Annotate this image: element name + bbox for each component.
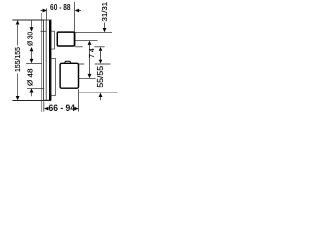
dim 55/55 bottom arrow	[99, 93, 103, 97]
dim 60-88 left arrow	[41, 10, 43, 12]
dim 74 line	[89, 45, 91, 75]
svg-text:155/155: 155/155	[15, 47, 22, 72]
upper collar	[51, 31, 54, 49]
upper knob front face	[74, 32, 76, 46]
svg-text:7: 7	[89, 54, 96, 58]
ext L6 lower axis	[78, 77, 95, 79]
dim 60-88 right arrow	[75, 9, 79, 13]
dim 66-94 ext left	[43, 101, 45, 111]
lower knob tab	[65, 61, 70, 63]
svg-text:Ø 30: Ø 30	[25, 32, 34, 46]
plate bottom ext	[12, 100, 51, 102]
lower knob top ext left	[26, 63, 42, 65]
dim O48 bottom arrow	[30, 88, 34, 92]
ext L1 upper knob top	[75, 32, 112, 34]
dim 66-94 right arrow	[74, 107, 78, 111]
ext L5a	[79, 92, 118, 94]
plate top ext	[12, 19, 43, 21]
dim O48 top arrow	[30, 59, 34, 63]
dim 74 top arrow	[88, 41, 92, 45]
dim 60-88 ext right	[74, 2, 76, 32]
dim 55/55 upper arrows	[99, 47, 103, 51]
lower knob	[60, 63, 78, 88]
dim 31/31 arrow	[103, 28, 107, 32]
lower collar	[51, 58, 56, 95]
svg-text:Ø 48: Ø 48	[26, 69, 35, 87]
dim 74 bottom arrow	[88, 74, 92, 78]
svg-text:66 - 94: 66 - 94	[49, 103, 76, 113]
plate seam	[45, 20, 47, 100]
dim 60-88 ext left	[46, 8, 48, 19]
svg-text:4: 4	[89, 48, 96, 52]
svg-text:31/31: 31/31	[100, 2, 109, 22]
dim 155/155	[16, 20, 20, 24]
upper knob top ext left	[41, 30, 47, 32]
upper knob	[57, 32, 74, 46]
dim O30 line top	[31, 21, 33, 29]
svg-text:60 - 88: 60 - 88	[50, 3, 71, 12]
dim O30 bottom arrow	[30, 47, 34, 51]
escutcheon plate side view	[44, 20, 51, 100]
ext L2 upper axis	[75, 39, 97, 41]
dim 31/31 line	[104, 23, 106, 29]
dim 66-94 ext right	[78, 89, 80, 111]
dim 66-94 left arrow	[44, 107, 48, 111]
plate front thick face	[49, 20, 51, 100]
lower knob bottom ext left	[27, 88, 44, 90]
ext L4 lower knob top	[79, 63, 84, 65]
wall line	[41, 13, 43, 112]
dim O30 top arrow	[30, 27, 34, 31]
ext L3 upper knob bottom	[75, 46, 83, 48]
svg-text:55/55: 55/55	[96, 65, 105, 87]
